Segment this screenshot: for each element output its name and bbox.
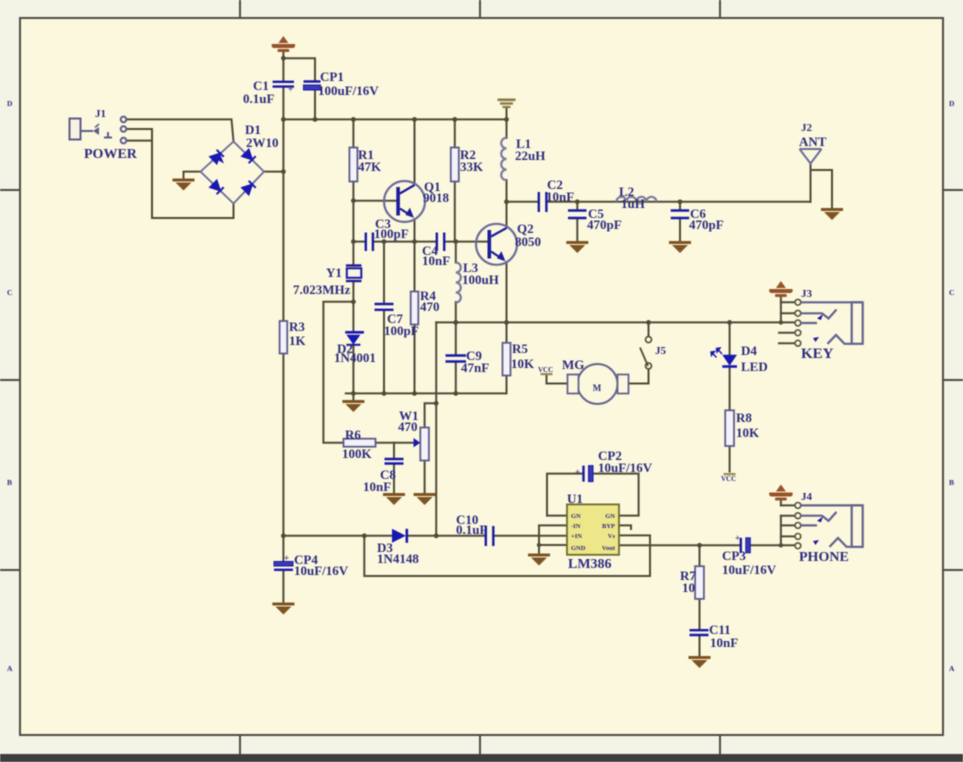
svg-text:10nF: 10nF: [422, 253, 450, 268]
svg-text:1N4001: 1N4001: [334, 350, 376, 365]
inductor L2 (horizontal): [616, 197, 656, 202]
svg-text:BYP: BYP: [602, 523, 615, 530]
wire J3 power stem: [780, 296, 782, 323]
wire J4 pin bus: [781, 504, 795, 506]
svg-text:10uF/16V: 10uF/16V: [598, 460, 653, 475]
wire C1 bottom to bus: [282, 87, 284, 119]
wire key line: [436, 321, 781, 323]
wire branch to W1 top: [425, 403, 437, 427]
svg-text:J1: J1: [95, 108, 106, 120]
svg-text:10K: 10K: [736, 425, 760, 440]
capacitor C3 plates: [366, 233, 373, 252]
capacitor CP3 electrolytic: [741, 538, 751, 553]
wire RF line left of C2: [507, 201, 539, 203]
svg-text:1N4148: 1N4148: [377, 551, 419, 566]
wire R7 leads: [699, 545, 701, 566]
IC U1 LM386: [567, 504, 619, 554]
wire C3 row left: [353, 241, 365, 243]
svg-text:A: A: [7, 664, 13, 673]
wire R1 bottom / crystal vertical: [352, 182, 354, 266]
ground at W1: [414, 493, 436, 505]
svg-text:+: +: [575, 467, 580, 477]
svg-text:1uH: 1uH: [621, 196, 645, 211]
svg-text:KEY: KEY: [801, 346, 834, 362]
wire C5 leads: [576, 202, 578, 210]
resistor R2: [451, 148, 459, 182]
wire J4 power stem: [780, 499, 782, 505]
wire C4 row right to Q2 base: [444, 241, 487, 243]
wire R6 to W1 wiper: [376, 442, 414, 444]
capacitor CP2 electrolytic: [584, 466, 594, 482]
svg-text:470pF: 470pF: [689, 217, 724, 232]
switch J5: [640, 337, 652, 369]
svg-text:J4: J4: [801, 491, 813, 503]
svg-text:22uH: 22uH: [515, 148, 545, 163]
wire R2 top lead: [454, 119, 456, 147]
svg-text:LM386: LM386: [568, 557, 612, 572]
wire C3 row right: [373, 241, 415, 243]
svg-text:J3: J3: [801, 288, 813, 300]
svg-text:J5: J5: [655, 345, 667, 357]
antenna J2: [800, 149, 822, 164]
capacitor C7 plates: [375, 304, 394, 310]
resistor R6 (horizontal): [344, 439, 376, 447]
wire top VCC bus: [283, 118, 506, 120]
svg-text:D4: D4: [741, 343, 757, 358]
inductor L1: [501, 138, 506, 180]
wire D4 to R8: [729, 369, 731, 411]
wire W1 bottom to ground: [424, 461, 426, 493]
bridge rectifier D1 diamond: [201, 142, 265, 204]
svg-text:1K: 1K: [289, 333, 307, 348]
capacitor C1 plates: [273, 82, 294, 87]
capacitor C10 plates: [486, 526, 494, 546]
svg-text:ANT: ANT: [799, 134, 827, 149]
svg-text:R3: R3: [289, 319, 305, 334]
svg-text:Vout: Vout: [602, 545, 616, 552]
capacitor C5 plates: [568, 211, 587, 219]
wire Q2 emitter to R5: [506, 262, 508, 343]
svg-text:9018: 9018: [423, 190, 450, 205]
resistor R1: [349, 148, 357, 182]
diode D3 (pointing right): [392, 529, 407, 543]
svg-text:R8: R8: [736, 410, 752, 425]
svg-text:PHONE: PHONE: [799, 550, 849, 565]
diode D2 (pointing down): [345, 332, 364, 345]
wire R8 bottom lead: [729, 446, 731, 472]
svg-text:100pF: 100pF: [384, 323, 419, 338]
svg-text:+: +: [288, 84, 293, 94]
wire D4 top lead: [729, 322, 731, 354]
net flag below R8: [721, 473, 736, 483]
wire LM386 pin1 stub: [547, 515, 567, 517]
svg-text:CP1: CP1: [320, 69, 344, 84]
wire C8 leads: [393, 443, 395, 459]
wire ground bus stem: [352, 393, 354, 399]
wire D2 to ground bus: [352, 346, 354, 394]
svg-text:A: A: [949, 664, 955, 673]
wire J1 bottom pin: [126, 140, 152, 142]
svg-text:+: +: [735, 533, 740, 543]
svg-text:VCC: VCC: [538, 366, 553, 374]
svg-text:B: B: [949, 478, 954, 487]
wire R2 bottom lead: [454, 182, 456, 242]
capacitor C9 plates: [446, 356, 467, 362]
wire VCC symbol to C1: [282, 51, 284, 82]
svg-text:10: 10: [682, 580, 695, 595]
wire L3 top lead: [455, 242, 457, 263]
svg-text:GND: GND: [571, 545, 586, 552]
ground at C6: [669, 241, 691, 253]
svg-text:Y1: Y1: [326, 265, 342, 280]
svg-text:R6: R6: [345, 427, 361, 442]
resistor R4: [411, 292, 419, 325]
wire antenna ground branch: [811, 170, 833, 208]
wire branch to CP1: [283, 58, 315, 81]
wire C9 to ground bus: [455, 363, 457, 394]
wire Q1 emitter lead: [414, 219, 416, 242]
VCC power symbol (top, above C1): [272, 36, 296, 52]
wire Q2 collector lead: [506, 202, 508, 228]
wire Q1 base row: [353, 200, 396, 202]
svg-text:33K: 33K: [460, 159, 484, 174]
svg-text:LED: LED: [741, 359, 768, 374]
svg-text:100uH: 100uH: [462, 272, 499, 287]
svg-text:VCC: VCC: [721, 475, 736, 483]
svg-text:MG: MG: [562, 357, 584, 372]
motor MG: [568, 364, 629, 404]
wire CP1 bottom to bus: [314, 91, 316, 120]
ground at CP4: [272, 603, 294, 615]
wire Y1 to D2: [352, 282, 354, 331]
svg-text:GN: GN: [571, 513, 581, 520]
svg-text:0.1uF: 0.1uF: [243, 91, 274, 106]
ground at antenna: [821, 208, 843, 220]
khaki tiered symbol above L1: [498, 99, 516, 109]
wire key corner vertical down to audio line: [435, 322, 437, 535]
wire C6 leads: [679, 202, 681, 210]
wire khaki symbol stem to L1: [506, 108, 508, 138]
wire J3 pin stubs: [781, 301, 795, 303]
wire antenna stem: [810, 163, 812, 202]
wire bridge left vertex to ground: [184, 172, 201, 179]
LED D4 (pointing down): [711, 348, 737, 367]
svg-text:+: +: [284, 553, 289, 563]
capacitor C6 plates: [671, 211, 690, 219]
svg-text:GN: GN: [605, 513, 615, 520]
wire LM386 pin2/pin4 ground: [539, 525, 567, 553]
svg-text:10uF/16V: 10uF/16V: [294, 563, 349, 578]
ground at C11: [689, 656, 711, 668]
wire Vs supply loop: [364, 535, 650, 576]
wire bias branch to R6: [323, 302, 353, 443]
wire audio out line: [619, 544, 741, 546]
wire left vertical lower (R3 to audio node): [282, 354, 284, 536]
jack J3 KEY: [795, 299, 863, 346]
svg-text:470pF: 470pF: [587, 217, 622, 232]
svg-text:R5: R5: [512, 341, 528, 356]
wire J1 middle pin: [126, 128, 152, 130]
wire CP4 to ground: [282, 571, 284, 603]
svg-text:B: B: [7, 478, 12, 487]
capacitor C2 plates: [539, 192, 547, 212]
svg-text:D: D: [949, 99, 955, 108]
wire R5 bottom lead: [506, 376, 508, 394]
wire L1 bottom to RF node: [506, 180, 508, 202]
ground at C8: [383, 493, 405, 505]
svg-text:C: C: [7, 288, 12, 297]
wire motor left to vcc flag: [547, 376, 569, 384]
wire CP2 loop right: [593, 474, 639, 516]
wire J1 pins down to bridge bottom vertex: [152, 129, 234, 218]
jack J4 PHONE: [795, 503, 863, 549]
ground at C5: [566, 241, 588, 253]
svg-text:47nF: 47nF: [461, 360, 489, 375]
wire R1 top lead: [352, 119, 354, 147]
svg-text:POWER: POWER: [84, 147, 138, 162]
svg-text:7.023MHz: 7.023MHz: [293, 282, 351, 297]
svg-text:+IN: +IN: [571, 533, 582, 540]
svg-text:Vs: Vs: [608, 533, 616, 540]
svg-text:470: 470: [420, 299, 440, 314]
bottom scan strip: [0, 754, 963, 762]
wire audio line (D3/C10 input): [283, 535, 391, 537]
svg-text:-IN: -IN: [571, 523, 581, 530]
D1 diodes (4x, navy triangles+bars): [210, 149, 256, 194]
resistor R5: [503, 343, 511, 376]
svg-text:10nF: 10nF: [546, 189, 574, 204]
inductor L3: [456, 263, 461, 303]
wire bridge right vertex to left vertical: [264, 171, 283, 173]
wire RF line main: [546, 201, 810, 203]
crystal Y1: [346, 266, 362, 282]
capacitor CP1 electrolytic: [304, 82, 321, 91]
svg-text:10nF: 10nF: [363, 479, 391, 494]
capacitor C4 plates: [437, 233, 444, 252]
power symbol above J3: [769, 281, 793, 297]
resistor R7: [695, 566, 704, 599]
connector J1 POWER: [70, 117, 127, 144]
zone letters: [7, 99, 955, 673]
svg-text:U1: U1: [567, 491, 583, 506]
D1 diode top-left: [211, 153, 224, 164]
wire C11 to ground: [699, 636, 701, 656]
transistor Q1: [384, 181, 425, 222]
wire R4 leads: [414, 242, 416, 292]
capacitor CP4 electrolytic: [274, 562, 293, 570]
svg-text:0.1uF: 0.1uF: [456, 522, 487, 537]
wire C7 leads: [383, 242, 385, 303]
capacitor C11 plates: [690, 630, 709, 635]
wire J5 bottom to motor: [629, 369, 649, 384]
svg-text:C: C: [949, 288, 954, 297]
svg-text:10nF: 10nF: [710, 635, 738, 650]
wire C4 row left: [415, 241, 437, 243]
ground at bridge: [173, 179, 195, 191]
wire ground bus: [346, 392, 507, 394]
trimmer W1: [420, 428, 429, 461]
capacitor C8 plates: [385, 459, 404, 464]
svg-text:10K: 10K: [511, 356, 535, 371]
svg-text:100pF: 100pF: [374, 226, 409, 241]
wire CP2 loop left: [547, 474, 583, 516]
svg-text:D: D: [7, 99, 13, 108]
svg-text:J2: J2: [801, 122, 813, 134]
svg-text:8050: 8050: [515, 234, 541, 249]
wire audio node to CP4: [282, 536, 284, 561]
svg-text:100uF/16V: 100uF/16V: [318, 83, 379, 98]
ground at LM386 pin4: [528, 554, 550, 566]
svg-text:2W10: 2W10: [246, 135, 279, 150]
wire Q1 collector lead: [414, 119, 416, 184]
wire L3 bottom to C9: [455, 302, 457, 355]
wire J5 top lead: [648, 322, 650, 336]
svg-text:CP3: CP3: [722, 548, 746, 563]
resistor R3: [280, 321, 288, 354]
svg-text:100K: 100K: [342, 446, 373, 461]
svg-text:470: 470: [398, 419, 418, 434]
transistor Q2: [476, 224, 517, 265]
svg-text:M: M: [593, 383, 602, 393]
wire LM386 pin7 stub: [619, 525, 631, 529]
wire left vertical upper (to R3): [282, 119, 284, 321]
ground below ground bus: [342, 400, 364, 412]
vcc net flag at MG: [538, 366, 553, 375]
resistor R8: [725, 410, 734, 446]
power symbol above J4: [769, 485, 793, 501]
wire J1 top pin to bridge top vertex: [126, 119, 234, 141]
svg-text:10uF/16V: 10uF/16V: [722, 562, 777, 577]
svg-text:47K: 47K: [358, 159, 382, 174]
